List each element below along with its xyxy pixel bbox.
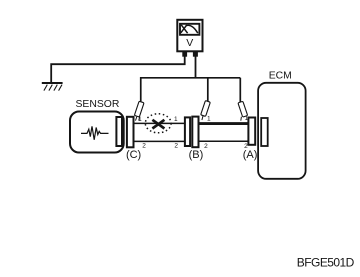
voltmeter V1 needle and scale arc (181, 25, 198, 33)
wire C to B pin 2 (bottom) (134, 140, 185, 142)
test probe terminal at connector B pin 1 (201, 101, 211, 120)
svg-text:ECM: ECM (269, 71, 292, 82)
label SENSOR (75, 99, 119, 110)
svg-text:1: 1 (245, 115, 249, 122)
pin 2 label at connector A (244, 143, 248, 150)
probe rail wire (141, 78, 241, 102)
wire B to A pin 1 (thick top) (199, 122, 249, 125)
svg-text:V: V (186, 37, 193, 49)
svg-text:(C): (C) (126, 149, 141, 161)
voltmeter V1 body (177, 20, 202, 52)
test probe terminal at connector A pin 1 (238, 101, 248, 120)
ECM-harness connector half of B (right) (192, 117, 198, 148)
label (C) (126, 149, 141, 161)
wire from voltmeter positive terminal down to probe rail (195, 57, 197, 78)
ECM body (258, 83, 306, 179)
svg-text:(B): (B) (189, 149, 204, 161)
pin 2 label at connector B left (174, 142, 178, 149)
resistor element inside sensor (81, 126, 109, 140)
label (B) (189, 149, 204, 161)
svg-text:2: 2 (142, 142, 146, 149)
figure code BFGE501D (297, 255, 355, 269)
svg-text:2: 2 (204, 143, 208, 150)
ground (chassis) symbol (42, 83, 63, 91)
wire C to B pin 1 (top) (134, 122, 185, 124)
wire drop to probe at connector B (207, 78, 209, 101)
label ECM (269, 71, 292, 82)
svg-text:(A): (A) (243, 149, 258, 161)
X open-circuit mark (152, 120, 164, 129)
wire from voltmeter negative terminal to ground (51, 57, 185, 84)
svg-text:2: 2 (244, 143, 248, 150)
voltmeter V1 display screen (180, 24, 199, 35)
ECM-side connector of A (261, 118, 268, 146)
pin 1 label at connector C (138, 116, 142, 123)
sensor-side connector half of C (116, 117, 122, 146)
svg-text:1: 1 (138, 116, 142, 123)
pin 1 label at connector B right (207, 116, 211, 123)
harness-side connector half of C (127, 117, 134, 148)
svg-text:BFGE501D: BFGE501D (297, 255, 355, 269)
harness-side connector half of A (248, 118, 255, 145)
wire B to A pin 2 (bottom) (199, 140, 249, 142)
svg-text:2: 2 (174, 142, 178, 149)
pin 2 label at connector B right (204, 143, 208, 150)
harness-side connector half of B (left) (185, 117, 190, 146)
test probe terminal at connector C pin 1 (134, 101, 144, 120)
pin 1 label at connector B left (174, 116, 178, 123)
pin 1 label at connector A (245, 115, 249, 122)
voltmeter V1 negative terminal pin (182, 51, 187, 56)
label (A) (243, 149, 258, 161)
svg-text:SENSOR: SENSOR (75, 99, 119, 110)
svg-text:1: 1 (207, 116, 211, 123)
dashed fault-location ellipse on wire C-B (145, 114, 171, 133)
voltmeter V1 positive terminal pin (193, 51, 198, 56)
wire drop to probe at connector A (239, 78, 241, 102)
voltmeter V1 label V (186, 37, 193, 49)
pin 2 label at connector C (142, 142, 146, 149)
sensor body (70, 112, 124, 153)
svg-text:1: 1 (174, 116, 178, 123)
